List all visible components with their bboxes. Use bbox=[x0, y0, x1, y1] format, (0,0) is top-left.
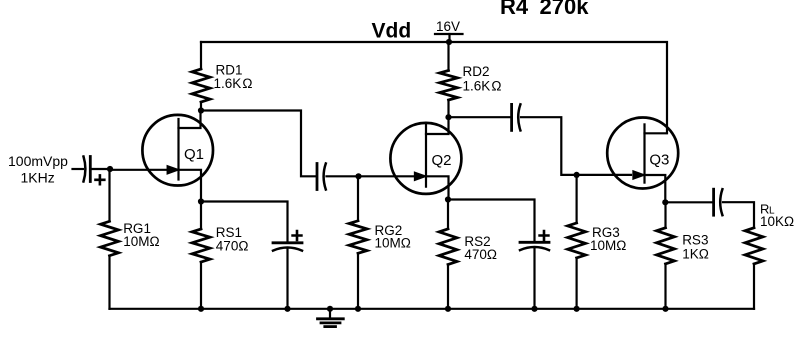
svg-text:10MΩ: 10MΩ bbox=[375, 235, 411, 250]
wire Vdd rail bbox=[201, 42, 667, 133]
svg-text:10MΩ: 10MΩ bbox=[590, 238, 626, 253]
svg-text:Q2: Q2 bbox=[432, 152, 452, 169]
resistor RS3 bbox=[657, 202, 709, 308]
node RG3 ground junction bbox=[574, 306, 580, 312]
resistor RS2 bbox=[439, 200, 497, 309]
capacitor C2 bbox=[317, 164, 359, 190]
transistor Q1 bbox=[142, 111, 213, 202]
svg-text:470Ω: 470Ω bbox=[216, 238, 249, 253]
resistor RG1 bbox=[101, 169, 160, 309]
svg-text:Vdd: Vdd bbox=[372, 20, 412, 43]
resistor RL bbox=[745, 228, 763, 309]
node Q1 drain junction bbox=[198, 107, 204, 113]
svg-text:1KHz: 1KHz bbox=[21, 170, 55, 186]
wire input stub bbox=[73, 168, 84, 170]
wire gate Q2 bbox=[359, 175, 414, 177]
node RS1 ground junction bbox=[198, 306, 204, 312]
svg-text:Q3: Q3 bbox=[649, 152, 669, 169]
node CS1 ground junction bbox=[284, 306, 290, 312]
svg-text:1KΩ: 1KΩ bbox=[682, 246, 709, 261]
node 16V tap bbox=[435, 19, 463, 42]
svg-text:RS3: RS3 bbox=[682, 233, 708, 248]
svg-text:100mVpp: 100mVpp bbox=[8, 153, 68, 169]
node RD2 top junction bbox=[446, 39, 452, 45]
label RL bbox=[760, 202, 794, 229]
wire Q2 source to CS2 bbox=[448, 200, 535, 243]
resistor RS1 bbox=[192, 202, 248, 309]
node Q3 source junction bbox=[662, 199, 668, 205]
node Q2 gate node bbox=[355, 173, 361, 179]
wire ground rail bbox=[110, 308, 755, 310]
wire Q1 source to CS1 bbox=[201, 202, 288, 243]
capacitor C3 bbox=[512, 104, 577, 174]
node Q2 drain junction bbox=[445, 114, 451, 120]
wire gate Q3 bbox=[577, 174, 631, 176]
node ground junction bbox=[327, 306, 333, 312]
svg-text:1.6K Ω: 1.6K Ω bbox=[463, 79, 502, 94]
svg-text:10MΩ: 10MΩ bbox=[123, 234, 159, 249]
svg-text:1.6K Ω: 1.6K Ω bbox=[214, 76, 253, 91]
transistor Q3 bbox=[607, 118, 678, 203]
svg-text:Q1: Q1 bbox=[184, 146, 204, 163]
node Q2 source junction bbox=[445, 196, 451, 202]
node CS2 ground junction bbox=[531, 306, 537, 312]
svg-text:16V: 16V bbox=[436, 19, 460, 34]
node Q1 source junction bbox=[198, 198, 204, 204]
svg-text:RD2: RD2 bbox=[463, 64, 490, 79]
capacitor Cout bbox=[714, 189, 754, 228]
svg-text:R4: R4 bbox=[500, 0, 529, 19]
capacitor Cin bbox=[84, 157, 111, 185]
capacitor CS1 bbox=[273, 231, 302, 309]
resistor RG2 bbox=[349, 176, 411, 308]
ground bbox=[318, 309, 344, 327]
node RS3 ground junction bbox=[662, 306, 668, 312]
node input gate node bbox=[107, 166, 113, 172]
svg-text:270k: 270k bbox=[540, 0, 590, 19]
node RG2 ground junction bbox=[355, 306, 361, 312]
resistor RD2 bbox=[440, 42, 502, 117]
label 100mVpp 1KHz source bbox=[8, 153, 68, 186]
transistor Q2 bbox=[390, 117, 461, 199]
capacitor CS2 bbox=[520, 231, 549, 309]
svg-text:10KΩ: 10KΩ bbox=[760, 214, 794, 229]
wire Q3 source to Cout bbox=[665, 201, 713, 203]
resistor RG3 bbox=[568, 175, 627, 309]
wire gate Q1 bbox=[110, 169, 166, 171]
node RS2 ground junction bbox=[445, 306, 451, 312]
wire Q2 drain to C3 bbox=[449, 116, 511, 118]
wire Q1 drain to C2 bbox=[201, 111, 316, 177]
svg-text:470Ω: 470Ω bbox=[464, 247, 497, 262]
node Q3 gate node bbox=[574, 172, 580, 178]
resistor RD1 bbox=[192, 42, 253, 111]
label R4 270k bbox=[500, 0, 589, 19]
